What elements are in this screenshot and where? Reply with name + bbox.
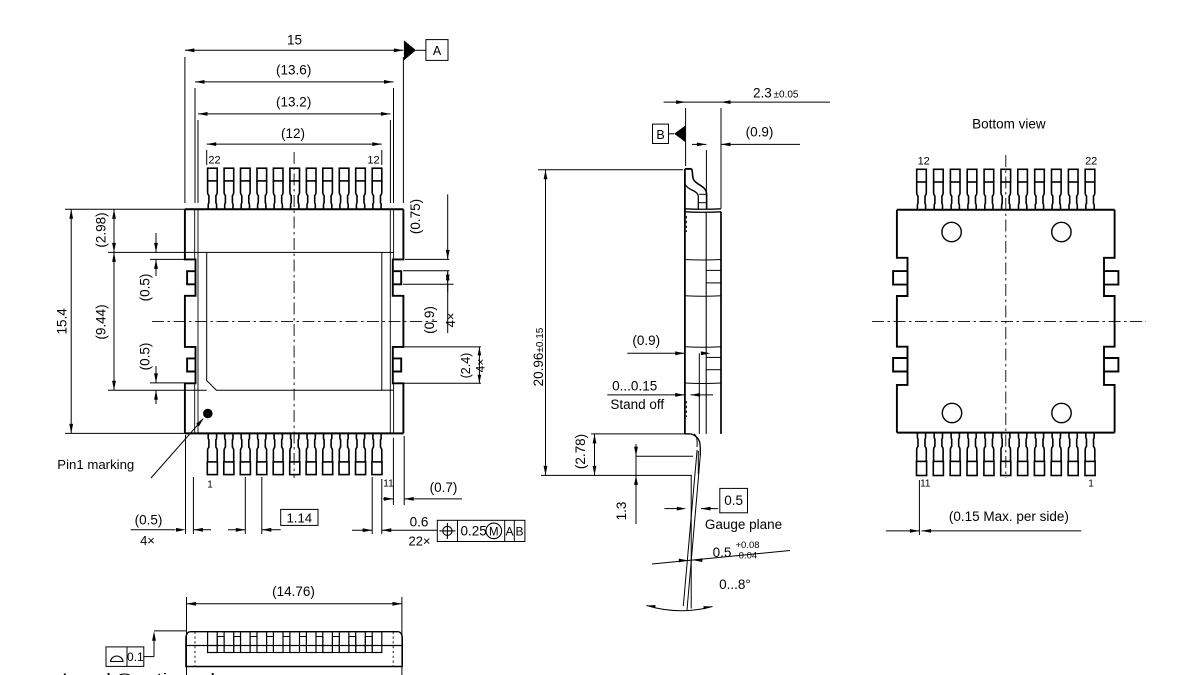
gauge plane 0.5 box [720, 488, 748, 512]
front view hidden dashed lines [194, 632, 196, 667]
dim (0.75) right [405, 258, 449, 260]
pad edge lines extending to right draft line [382, 251, 394, 253]
dim (12) [206, 150, 208, 165]
svg-text:0...0.15: 0...0.15 [612, 379, 657, 394]
feature control frame 0.25 M A B [437, 520, 525, 541]
svg-text:(2.4): (2.4) [459, 353, 473, 379]
exposed pad outline 12 x 9.44 with pin1 chamfer [207, 252, 382, 390]
svg-text:1: 1 [1088, 479, 1094, 490]
svg-text:(0.9): (0.9) [422, 306, 437, 334]
bottom view group [872, 117, 1146, 536]
svg-text:22×: 22× [408, 534, 430, 549]
side view body top edges [685, 208, 721, 210]
svg-text:(2.78): (2.78) [573, 434, 588, 469]
dim 20.96 +-0.15 [538, 169, 683, 171]
svg-text:B: B [656, 128, 664, 142]
dim 0.6 22x with position tolerance frame [371, 477, 373, 534]
flatness datum frame 0.1 [106, 647, 144, 667]
svg-text:12: 12 [918, 156, 930, 168]
svg-text:11: 11 [920, 479, 931, 490]
dim (13.2) [197, 120, 199, 203]
svg-text:(0.9): (0.9) [632, 333, 660, 348]
dim (2.98) [108, 251, 207, 253]
leader from datum frame to seating plane [144, 656, 154, 658]
side view slug line [698, 353, 700, 434]
dim 15.4 (left) [65, 208, 185, 210]
dim (0.5) upper left [150, 258, 185, 260]
dim (14.76) [186, 597, 188, 675]
svg-text:1.3: 1.3 [614, 502, 629, 521]
dim (0.9) top [705, 150, 707, 196]
svg-text:0.25: 0.25 [461, 524, 487, 539]
svg-text:15: 15 [287, 33, 302, 48]
svg-text:2.3: 2.3 [753, 86, 772, 101]
side view hidden dashes [685, 216, 687, 232]
svg-text:0.6: 0.6 [410, 514, 429, 529]
svg-text:1.14: 1.14 [286, 510, 312, 525]
bottom view body outline [897, 209, 1115, 211]
svg-text:4×: 4× [140, 533, 155, 548]
svg-text:0.5: 0.5 [724, 493, 743, 508]
svg-text:11: 11 [383, 479, 394, 490]
side view lead shank straight + tilted (0..8 deg) [690, 475, 692, 608]
svg-text:15.4: 15.4 [55, 308, 70, 335]
svg-text:(13.6): (13.6) [276, 63, 311, 78]
seating plane line [541, 474, 692, 476]
side view zone lines [685, 259, 721, 262]
dim (2.78) [591, 433, 690, 435]
svg-text:0...8°: 0...8° [719, 577, 751, 592]
svg-text:(0.5): (0.5) [138, 274, 153, 302]
svg-text:(14.76): (14.76) [272, 584, 315, 599]
svg-text:(12): (12) [281, 126, 305, 141]
front view group [62, 584, 402, 675]
front view lead comb [208, 632, 218, 653]
side view top lead S-curve [685, 168, 692, 170]
svg-text:12: 12 [367, 155, 379, 167]
bottom view top pin row (12..22) [917, 169, 927, 182]
dim 1.3 [636, 455, 693, 457]
dim (0.5) 4x bottom [185, 435, 187, 534]
svg-text:A: A [433, 44, 442, 58]
svg-text:-0.04: -0.04 [736, 551, 758, 562]
bottom pin row (pins 1..11) [207, 462, 217, 475]
dim (9.44) [108, 389, 207, 391]
side view group [531, 86, 830, 611]
dim 2.3 +-0.05 [685, 108, 687, 166]
svg-text:4×: 4× [443, 313, 458, 328]
dim 15 (top) with datum A flag [184, 57, 186, 203]
bottom view centerlines [872, 320, 1146, 322]
svg-text:(13.2): (13.2) [276, 94, 311, 109]
svg-text:Pin1 marking: Pin1 marking [57, 457, 134, 472]
side view bottom lead bend [685, 433, 691, 435]
dim 0.5 +0.08 -0.04 lead thickness [652, 551, 790, 565]
svg-text:(0.5): (0.5) [135, 512, 163, 527]
side view front face [720, 212, 722, 434]
datum B flag [653, 124, 669, 143]
bottom view bottom pin row (11..1) [917, 461, 927, 475]
ejector pin circles [942, 222, 961, 241]
svg-text:4×: 4× [474, 359, 488, 373]
svg-text:±0.05: ±0.05 [774, 90, 799, 101]
svg-text:(2.98): (2.98) [94, 212, 109, 247]
dim 1.14 pitch [244, 477, 246, 534]
top view centerlines [152, 320, 437, 322]
top pin row (pins 22..12) [208, 168, 218, 181]
svg-text:1: 1 [207, 480, 213, 491]
front view slab outline [186, 632, 402, 667]
svg-text:Stand off: Stand off [610, 397, 664, 412]
svg-text:22: 22 [208, 155, 220, 167]
top view body outline [185, 208, 404, 210]
dim (13.6) [194, 88, 196, 203]
top view: package top view outline group [55, 33, 525, 549]
svg-text:Lead Seating plane: Lead Seating plane [62, 670, 252, 675]
body draft lines (13.6 / 13.2 edges) [194, 209, 196, 259]
dim (0.7) [392, 438, 394, 505]
svg-text:(0.7): (0.7) [430, 480, 458, 495]
svg-text:(0.15 Max. per side): (0.15 Max. per side) [949, 509, 1069, 524]
svg-text:+0.08: +0.08 [736, 540, 760, 551]
svg-text:(0.75): (0.75) [408, 199, 423, 234]
svg-text:M: M [489, 526, 499, 538]
svg-text:22: 22 [1085, 156, 1097, 168]
svg-text:(0.9): (0.9) [746, 125, 774, 140]
svg-text:0.1: 0.1 [127, 650, 144, 664]
dim 0...8 deg angle arc [647, 606, 713, 611]
svg-text:Bottom view: Bottom view [972, 117, 1046, 132]
dim (0.15 Max. per side) [918, 480, 920, 535]
dim (2.4) 4x right [404, 346, 481, 348]
pin1 marking dot [203, 409, 213, 419]
svg-text:B: B [515, 525, 523, 539]
dim (0.5) lower left [150, 382, 185, 384]
svg-text:Gauge plane: Gauge plane [705, 517, 782, 532]
svg-text:A: A [505, 525, 513, 539]
svg-text:(9.44): (9.44) [94, 304, 109, 339]
svg-text:(0.5): (0.5) [138, 343, 153, 371]
side view back face [684, 169, 686, 434]
dim (0.9) 4x right [403, 283, 454, 285]
svg-text:0.5: 0.5 [713, 545, 732, 560]
side view interior vertical [705, 212, 707, 434]
